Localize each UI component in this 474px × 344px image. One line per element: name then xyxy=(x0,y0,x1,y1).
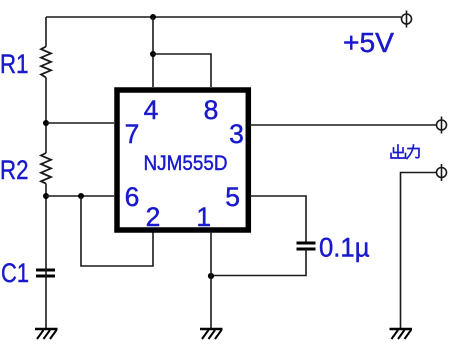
label 出力 (output) xyxy=(391,145,419,159)
wire pin 2 branch xyxy=(81,196,153,266)
wire C1 to ground xyxy=(45,268,47,329)
node pin4/pin8 junction xyxy=(150,51,156,57)
svg-text:3: 3 xyxy=(229,119,244,149)
ground right xyxy=(390,329,413,339)
svg-text:1: 1 xyxy=(196,202,211,232)
node rail/pin4 junction xyxy=(150,14,156,20)
svg-text:0.1µ: 0.1µ xyxy=(319,233,370,263)
wire pin 7 xyxy=(46,122,114,124)
wire pin 3 output xyxy=(250,124,437,126)
wire output lower to ground xyxy=(401,173,437,330)
terminal output upper xyxy=(437,117,447,134)
wire R1 to R2 xyxy=(45,78,47,154)
node R1/R2/pin7 junction xyxy=(43,120,49,126)
ground left xyxy=(35,329,58,339)
svg-text:8: 8 xyxy=(204,95,219,125)
resistor R2 xyxy=(41,153,51,184)
resistor R1 xyxy=(41,47,51,78)
terminal output lower xyxy=(437,164,447,181)
svg-text:6: 6 xyxy=(125,182,140,212)
terminal +5V xyxy=(402,11,412,28)
node pin1/cap junction xyxy=(208,273,214,279)
wire pin 6 xyxy=(46,195,114,197)
ground middle xyxy=(200,329,223,339)
wire cap to pin1 net xyxy=(211,249,306,276)
svg-text:2: 2 xyxy=(146,202,161,232)
svg-text:4: 4 xyxy=(144,95,159,125)
wire pin 4 xyxy=(152,17,154,87)
capacitor C1 xyxy=(36,270,55,276)
node pin2 branch junction xyxy=(78,193,84,199)
wire pin 5 xyxy=(250,196,306,243)
svg-text:5: 5 xyxy=(225,182,240,212)
op-amp U1 NJM555D body xyxy=(117,90,248,230)
svg-text:R2: R2 xyxy=(0,155,29,185)
svg-text:C1: C1 xyxy=(1,258,29,288)
capacitor 0.1u xyxy=(297,243,316,249)
wire pin 1 to ground xyxy=(210,232,212,329)
wire left rail top (rail to R1) xyxy=(45,17,47,47)
wire pin 8 xyxy=(153,54,211,87)
svg-text:NJM555D: NJM555D xyxy=(144,152,228,175)
svg-text:R1: R1 xyxy=(0,49,29,79)
wire top +5V rail xyxy=(46,16,401,18)
node R2/C1/pin6 junction xyxy=(43,193,49,199)
svg-text:+5V: +5V xyxy=(343,27,395,58)
wire R2 to C1 xyxy=(45,184,47,269)
svg-text:7: 7 xyxy=(125,119,140,149)
